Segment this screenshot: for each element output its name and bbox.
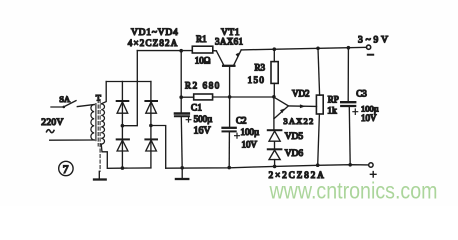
potentiometer RP (316, 48, 323, 165)
plus sign C2 (235, 133, 240, 138)
minus mark under terminal (368, 54, 373, 56)
node RP top tap (316, 47, 320, 51)
wire bridge top rail (106, 81, 151, 83)
switch SA (51, 101, 94, 109)
svg-text:150: 150 (248, 75, 265, 85)
node ground rail C2 (227, 166, 231, 170)
capacitor C2 (223, 97, 236, 168)
svg-text:SA: SA (59, 94, 71, 104)
node R3 top tap (273, 47, 277, 51)
plus mark under bottom terminal (370, 172, 376, 178)
wire R1 to VT1 emitter (213, 50, 217, 52)
diode VD3 (bridge left bottom) (117, 139, 129, 151)
svg-text:7: 7 (63, 164, 69, 176)
svg-text:220V: 220V (41, 118, 63, 128)
plus sign C1 (186, 117, 191, 122)
node ground rail C1 (180, 166, 184, 170)
diode VD5 (268, 130, 282, 141)
wire bridge bottom rail (108, 167, 151, 169)
svg-text:500µ: 500µ (194, 114, 213, 124)
node R2 left junction (179, 95, 183, 99)
svg-text:100µ: 100µ (361, 103, 379, 113)
svg-text:3AX61: 3AX61 (215, 37, 243, 47)
terminal output positive (367, 45, 371, 49)
node bridge right midpoint (149, 124, 153, 128)
wire top rail right segment (241, 47, 366, 50)
svg-text:10V: 10V (242, 140, 258, 150)
wire secondary bottom to bridge (101, 144, 107, 168)
terminal output negative (369, 163, 373, 167)
wire bridge right column (150, 82, 152, 168)
svg-text:R1: R1 (196, 34, 207, 44)
capacitor C3 (341, 48, 355, 165)
transistor VD2 (3AX22 regulator) (274, 97, 317, 130)
resistor R3 (271, 49, 278, 97)
node ground rail C3 (348, 163, 352, 167)
svg-text:100µ: 100µ (241, 127, 260, 137)
node VT1 base junction (228, 95, 232, 99)
svg-text:3AX22: 3AX22 (283, 116, 313, 126)
svg-text:RP: RP (328, 95, 339, 105)
transformer T secondary winding (101, 104, 104, 144)
svg-text:VD6: VD6 (285, 149, 304, 159)
label ~ (AC tilde) (47, 130, 55, 133)
wire bridge negative stub to ground rail (151, 126, 166, 169)
svg-text:VD5: VD5 (285, 132, 304, 142)
figure number 7 (59, 161, 73, 175)
svg-text:C1: C1 (191, 102, 202, 112)
transformer core (98, 100, 100, 172)
capacitor C1 (175, 51, 189, 168)
node ground rail RP (316, 163, 320, 167)
svg-text:VD1~VD4: VD1~VD4 (131, 28, 178, 38)
transformer T primary winding (91, 105, 94, 141)
resistor R2 (181, 94, 274, 100)
node C3 top tap (347, 46, 351, 50)
ground (transformer core) (94, 171, 106, 179)
diode VD4 (bridge right bottom) (145, 139, 157, 151)
wire primary bottom lead (50, 139, 94, 141)
svg-text:4×2CZ82A: 4×2CZ82A (128, 38, 178, 48)
ground (C1 / rail) (176, 168, 188, 179)
node ground rail VD6 (273, 165, 277, 169)
node bridge bottom left (121, 166, 125, 170)
diode VD1 (bridge left top) (117, 101, 129, 113)
svg-text:16V: 16V (194, 126, 212, 137)
node bridge left midpoint (121, 124, 125, 128)
wire secondary top to bridge (101, 82, 106, 104)
svg-text:T: T (96, 92, 102, 102)
svg-text:R2 680: R2 680 (185, 81, 220, 91)
svg-text:C3: C3 (356, 89, 367, 99)
transistor VT1 (216, 50, 241, 97)
node R3 bottom junction (272, 95, 276, 99)
wire bridge left column (121, 82, 123, 169)
wire ground rail (166, 165, 369, 169)
wire top rail left segment (137, 50, 192, 52)
svg-text:10Ω: 10Ω (195, 56, 211, 66)
transformer primary inner line (95, 104, 97, 141)
node C1 top tap (179, 49, 183, 53)
svg-text:3~9V: 3~9V (358, 35, 388, 45)
svg-text:www.cntronics.com: www.cntronics.com (269, 178, 438, 204)
diode VD2 (bridge right top) (145, 101, 157, 113)
svg-text:R3: R3 (255, 63, 266, 73)
svg-text:1k: 1k (327, 107, 337, 117)
svg-text:10V: 10V (361, 113, 377, 123)
resistor R1 (192, 46, 213, 53)
diode VD6 (268, 141, 282, 166)
plus sign C3 (353, 109, 358, 114)
wire bridge positive stub to top rail (122, 51, 137, 126)
svg-text:C2: C2 (236, 115, 247, 125)
svg-text:VD2: VD2 (292, 89, 310, 99)
